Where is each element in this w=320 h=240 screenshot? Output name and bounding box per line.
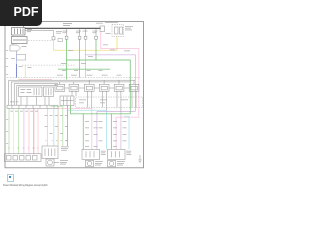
page background: [0, 0, 149, 198]
violet wire from bus: [85, 29, 87, 36]
green horizontal link: [67, 59, 131, 61]
label yellow wire: [28, 66, 32, 69]
middle cluster wire pink: [46, 108, 48, 146]
SJB inner breaker: [120, 27, 123, 34]
left cluster wire green 1: [8, 108, 10, 154]
SJB inner fuse: [115, 27, 119, 34]
S3 label: [101, 151, 106, 155]
cluster wire labels: [10, 111, 68, 134]
bus drop labels: [63, 31, 98, 33]
left cluster wire green 2: [18, 108, 20, 154]
harness bus line 3: [14, 84, 58, 105]
violet drop right: [120, 112, 122, 150]
window relay K6: [114, 84, 124, 91]
passenger window motor M2: [86, 160, 94, 167]
window relay K7: [129, 84, 139, 91]
M2 label: [95, 161, 103, 165]
wire A1 to node: [16, 51, 18, 54]
doors boundary dashed box: [76, 97, 143, 108]
rear window motor M3: [108, 160, 116, 167]
green drop center: [82, 114, 84, 150]
window relay K2: [55, 84, 65, 91]
top-left connector block C1: [12, 28, 26, 36]
wire between C1 and K1: [12, 35, 14, 37]
caption text: [3, 184, 115, 187]
left cluster wire pink: [28, 108, 30, 154]
bus label text: [22, 23, 73, 47]
fuse F1 tap: [25, 30, 55, 39]
ground G1: [138, 155, 141, 163]
smart junction box SJB (dashed): [112, 25, 124, 37]
harness bus line 1: [9, 80, 135, 105]
driver door module grid U1: [60, 96, 74, 106]
wire color labels middle cluster: [45, 139, 67, 142]
yellow wire fuse drop: [53, 40, 55, 51]
M1 lead: [54, 162, 59, 164]
riser to frame top: [23, 22, 25, 28]
label blue wire: [11, 58, 23, 67]
left cluster wire rose: [37, 108, 39, 154]
diagram frame: [5, 22, 144, 168]
driver window motor M1: [46, 159, 54, 166]
connector box on blue wire: [17, 54, 26, 60]
harness bus line 2: [11, 82, 131, 105]
dashed firewall boundary: [7, 76, 140, 78]
pink feed center circuit: [58, 108, 92, 149]
dashed boundary mid: [22, 64, 75, 66]
zone labels: [57, 70, 128, 103]
blue wire node to connector: [16, 54, 18, 65]
violet horizontal: [86, 54, 136, 56]
mid band labels: [61, 45, 130, 64]
dark junction rail: [58, 68, 110, 70]
S2 label: [61, 147, 69, 151]
driver lock switch S2: [42, 146, 58, 159]
dashed boundary top: [28, 40, 55, 42]
blue wire lower: [16, 64, 18, 78]
diode module D3: [58, 39, 63, 42]
pink loop wire from B1: [101, 32, 139, 150]
relay link wires: [65, 87, 130, 89]
arrow connector A1: [10, 45, 21, 51]
relay feed risers: [60, 80, 134, 84]
door module connector strip J1: [7, 105, 58, 108]
relay drop wires: [21, 91, 136, 111]
driver door connector P2: [44, 87, 54, 97]
frame ruler ticks: [6, 50, 8, 144]
S4 label: [126, 151, 131, 155]
green drop right: [110, 114, 112, 150]
yellow wire SJB drop: [116, 37, 118, 51]
harness bus line 4: [17, 85, 58, 105]
label fuse F1: [56, 31, 62, 34]
battery junction connector B1: [100, 26, 105, 32]
middle cluster wire cyan: [53, 107, 55, 146]
middle cluster green branch: [51, 106, 63, 146]
violet right riser: [135, 55, 137, 111]
window relay K5: [99, 84, 109, 91]
red branch wire: [19, 78, 53, 80]
left cluster wire violet: [23, 108, 25, 154]
M1 label: [60, 160, 68, 164]
violet link rail: [97, 111, 136, 113]
strip labels: [10, 101, 19, 104]
PDF badge: [0, 0, 42, 26]
P1 labels: [21, 89, 32, 93]
green link rail: [71, 106, 131, 114]
yellow feed wire horizontal: [54, 49, 118, 51]
green run wire (bus to door): [66, 29, 68, 36]
wire K1 down: [12, 44, 14, 46]
circuit wire labels center: [85, 121, 103, 147]
label B1: [96, 22, 103, 25]
master window switch S1: [5, 154, 42, 162]
window relay K4: [84, 84, 94, 91]
power bus (hot at all times): [25, 27, 101, 29]
middle cluster wire tan: [57, 107, 59, 146]
yellow wire left drop: [24, 65, 26, 78]
fuse rects on bus drops: [65, 36, 97, 39]
M3 label: [117, 161, 125, 165]
green right riser: [129, 60, 131, 114]
wire color labels left cluster: [8, 147, 39, 150]
circuit wire labels right: [113, 121, 127, 147]
top-left relay block K1: [12, 37, 28, 44]
left cluster wire red: [33, 108, 35, 154]
cyan feed center circuit: [68, 110, 107, 149]
violet drop center: [96, 112, 98, 150]
attachment icon: [7, 174, 14, 182]
window relay K3: [69, 84, 79, 91]
green feed wire 2: [95, 29, 97, 36]
left cluster wire pale yellow: [13, 108, 15, 154]
middle cluster wire gray: [67, 106, 69, 147]
cyan drop right: [124, 116, 129, 149]
passenger window switch S3: [82, 149, 100, 159]
SJB labels: [105, 22, 133, 34]
red wire from bus: [79, 29, 81, 36]
rear window switch S4: [108, 149, 126, 159]
driver door module P1: [19, 87, 43, 97]
